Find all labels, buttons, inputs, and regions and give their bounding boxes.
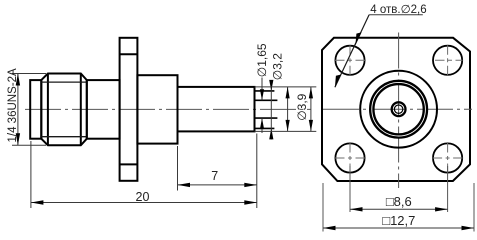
svg-text:∅3,2: ∅3,2 (271, 53, 285, 80)
svg-text:7: 7 (211, 169, 218, 183)
svg-text:□12,7: □12,7 (382, 213, 415, 228)
svg-text:□8,6: □8,6 (386, 194, 412, 209)
svg-text:1/4 36UNS-2A: 1/4 36UNS-2A (7, 68, 19, 142)
svg-text:∅3,9: ∅3,9 (295, 93, 309, 120)
svg-text:20: 20 (136, 190, 150, 204)
svg-text:4 отв.∅2,6: 4 отв.∅2,6 (370, 4, 426, 16)
svg-text:∅1,65: ∅1,65 (255, 43, 269, 77)
